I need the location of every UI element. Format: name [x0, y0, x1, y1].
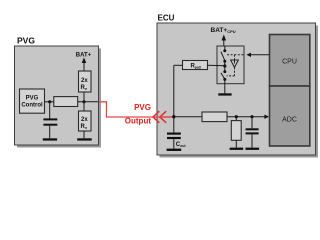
dashed control into driver	[234, 55, 236, 60]
node BAT+ (PVG)	[76, 53, 92, 72]
PVG Output label	[125, 103, 152, 125]
wire R3 to node A	[78, 101, 99, 103]
node B junction	[48, 100, 51, 103]
dashed control S1	[227, 54, 244, 56]
wire R4 to ADC	[227, 116, 266, 118]
svg-text:Rv: Rv	[81, 85, 88, 91]
switch S2 (to ground)	[221, 70, 226, 81]
svg-text:PVG: PVG	[17, 36, 35, 46]
wire PVG Control to R3	[45, 101, 54, 103]
resistor R1 2x Rv (upper)	[79, 71, 92, 92]
wire S2 to ground	[224, 79, 226, 93]
svg-text:Rv: Rv	[81, 124, 88, 130]
ground (under R5)	[230, 148, 244, 150]
capacitor C2	[246, 128, 259, 147]
wire R1 to node A	[83, 92, 85, 111]
node E junction	[235, 115, 238, 118]
node BAT+CPU	[211, 27, 236, 46]
ADC block	[270, 86, 310, 146]
svg-text:Control: Control	[21, 103, 43, 109]
wire node B to capacitor C1	[49, 102, 51, 119]
ground (under switch unit)	[218, 93, 231, 95]
capacitor Cout	[167, 133, 186, 149]
svg-text:ECU: ECU	[158, 14, 175, 23]
node D junction	[172, 115, 175, 118]
wire S1 to node C	[224, 61, 226, 71]
node A junction	[82, 100, 85, 103]
connector chevrons	[153, 111, 166, 123]
svg-text:BAT+: BAT+	[76, 53, 92, 59]
CPU block	[270, 35, 310, 87]
svg-text:PVG: PVG	[134, 103, 151, 112]
arrow into ADC	[264, 115, 269, 119]
wire node E to R5	[235, 117, 237, 121]
ECU module box	[157, 14, 318, 158]
wire node F to C2	[251, 117, 253, 129]
control wire from CPU	[246, 53, 269, 57]
wire into switch S1	[224, 46, 226, 51]
resistor R2 2x Rv (lower)	[79, 111, 92, 131]
svg-text:CPU: CPU	[282, 59, 297, 66]
capacitor C1	[43, 118, 57, 138]
wire to Rpull left	[174, 64, 183, 66]
driver U2 (triangle)	[231, 60, 239, 67]
wire Rpull to node C	[208, 64, 225, 67]
resistor R3 (series)	[54, 97, 78, 107]
dashed control S2	[227, 67, 235, 76]
wire node D to Cout	[173, 117, 175, 133]
wire R2 to ground	[83, 131, 85, 138]
switch S1 (to BAT)	[221, 49, 226, 62]
node F junction	[250, 115, 253, 118]
red wire into ECU	[160, 116, 172, 118]
ground (under C2)	[246, 148, 260, 150]
wire PVG output (red net)	[99, 102, 173, 117]
svg-text:2x: 2x	[81, 117, 88, 123]
ground (under R2)	[77, 138, 92, 140]
svg-text:PVG: PVG	[26, 96, 39, 102]
node C junction	[223, 64, 226, 67]
wire node D to R4	[174, 116, 202, 118]
wire R5 to ground	[235, 140, 237, 147]
resistor Rpull	[183, 61, 208, 70]
svg-text:ADC: ADC	[282, 117, 297, 124]
switch unit U1 (dashed box)	[217, 46, 244, 84]
PVG Control block	[20, 89, 45, 113]
svg-text:Output: Output	[125, 117, 152, 126]
wire node D up to Rpull	[173, 65, 175, 116]
svg-text:2x: 2x	[81, 78, 88, 84]
ground (under Cout)	[167, 149, 182, 151]
PVG module box	[15, 36, 102, 148]
resistor R5 (to ground)	[231, 121, 241, 141]
ground (under C1)	[43, 138, 57, 140]
resistor R4 (series filter)	[202, 112, 227, 122]
